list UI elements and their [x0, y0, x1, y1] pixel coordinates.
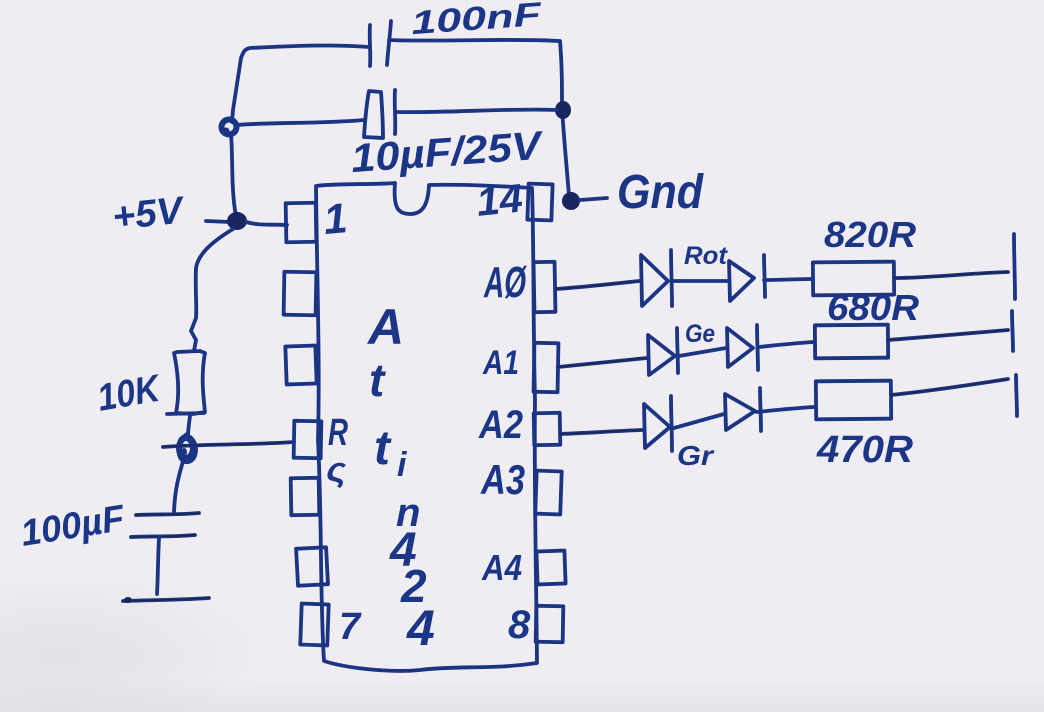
pin A0 box [534, 262, 556, 312]
terminal T1 [1014, 234, 1015, 299]
ground below C3 [123, 597, 209, 603]
wire R4 to terminal T3 [891, 379, 1008, 395]
junction J5 reset node [178, 434, 196, 462]
wire Gnd stub [580, 198, 607, 200]
wire left rail down to +5V node [231, 133, 236, 216]
svg-text:t: t [374, 422, 392, 475]
wire +5V node to pin1 box [246, 222, 287, 225]
pin 8 box [536, 606, 564, 642]
diode D5 green LED [644, 396, 672, 451]
svg-text:14: 14 [474, 176, 524, 225]
resistor R4 470R [816, 381, 891, 420]
svg-text:A2: A2 [478, 403, 523, 447]
wire D1 to D2 [673, 279, 729, 283]
resistor R3 680R [815, 325, 888, 359]
diode D3 yellow LED [648, 328, 678, 375]
wire R3 to terminal T2 [888, 330, 1008, 340]
terminal T3 [1016, 375, 1017, 416]
svg-text:Gr: Gr [677, 440, 715, 471]
diode D6 [725, 388, 761, 431]
wire +5V node down to resistor R1 [191, 229, 233, 351]
wire C2 right lead to right rail [397, 110, 557, 113]
wire C1 left lead to left rail [232, 45, 369, 122]
pin 7 box [300, 604, 328, 646]
diode D4 [727, 325, 758, 370]
junction J3 Gnd node [562, 192, 580, 210]
wire R2 to terminal T1 [894, 272, 1008, 278]
svg-text:A4: A4 [481, 547, 522, 588]
wire D3 to D4 [679, 348, 726, 356]
svg-text:+5V: +5V [110, 189, 187, 238]
svg-text:R: R [328, 412, 348, 454]
svg-text:t: t [369, 354, 386, 406]
svg-text:8: 8 [508, 603, 531, 647]
svg-text:A3: A3 [480, 456, 525, 503]
pin 3 box [285, 345, 316, 384]
wire C2 left lead to left rail [237, 120, 364, 125]
wire D5 to D6 [674, 414, 724, 428]
svg-text:A1: A1 [482, 344, 519, 382]
pin A3 box [535, 471, 561, 515]
wire +5V stub [206, 221, 230, 222]
pin 1 box [286, 203, 317, 243]
wire C1 right lead to right rail [389, 40, 559, 41]
pin 2 box [284, 272, 317, 316]
diode D1 red LED [641, 250, 672, 306]
svg-text:i: i [397, 446, 408, 484]
wire pin A0 to diode D1 [556, 281, 639, 289]
wire D6 to R4 [757, 407, 814, 412]
svg-text:Gnd: Gnd [617, 166, 704, 219]
pin 4 box RES [294, 421, 322, 458]
pin label RES [326, 412, 348, 489]
svg-text:A: A [366, 299, 404, 355]
svg-text:470R: 470R [816, 429, 914, 471]
wire R1 to reset node [188, 416, 190, 436]
resistor R2 820R [813, 262, 894, 296]
wire right rail down to Gnd node [560, 41, 569, 196]
pin A4 box [536, 551, 565, 585]
svg-text:Ge: Ge [685, 320, 715, 348]
capacitor C1 100nF [370, 21, 391, 66]
terminal T2 [1012, 311, 1013, 351]
wire D4 to R3 [759, 342, 814, 347]
wire reset node down to C3 [174, 458, 184, 512]
svg-text:4: 4 [406, 600, 435, 656]
wire pin A2 to diode D5 [560, 430, 642, 434]
svg-text:820R: 820R [824, 214, 916, 255]
pin 6 box [296, 547, 328, 586]
junction J4 +5V node [227, 212, 247, 230]
junction J2 right rail / C2 [555, 101, 571, 119]
IC name ATtiny424 vertical [366, 299, 435, 656]
svg-text:Rot: Rot [684, 242, 729, 270]
svg-text:AØ: AØ [483, 258, 527, 307]
wire D2 to R2 [764, 279, 812, 280]
diode D2 [729, 255, 765, 301]
pin 14 box [527, 184, 552, 221]
pin 5 box [291, 478, 320, 515]
svg-text:7: 7 [339, 606, 362, 648]
capacitor C2 10uF/25V electrolytic [364, 90, 395, 138]
resistor R1 10K [174, 351, 205, 414]
svg-text:ς: ς [326, 451, 347, 489]
pin A1 box [534, 343, 559, 392]
pin A2 box [534, 413, 561, 445]
wire reset node to RES pin [163, 442, 294, 447]
wire pin A1 to diode D3 [558, 358, 647, 367]
resistor R1 bottom lead line [167, 413, 204, 414]
junction J1 left rail / C2 [222, 120, 237, 135]
capacitor C3 100uF [131, 513, 199, 594]
svg-text:1: 1 [322, 194, 349, 243]
svg-text:680R: 680R [827, 287, 919, 328]
IC U1 ATtiny424 body [316, 183, 537, 671]
